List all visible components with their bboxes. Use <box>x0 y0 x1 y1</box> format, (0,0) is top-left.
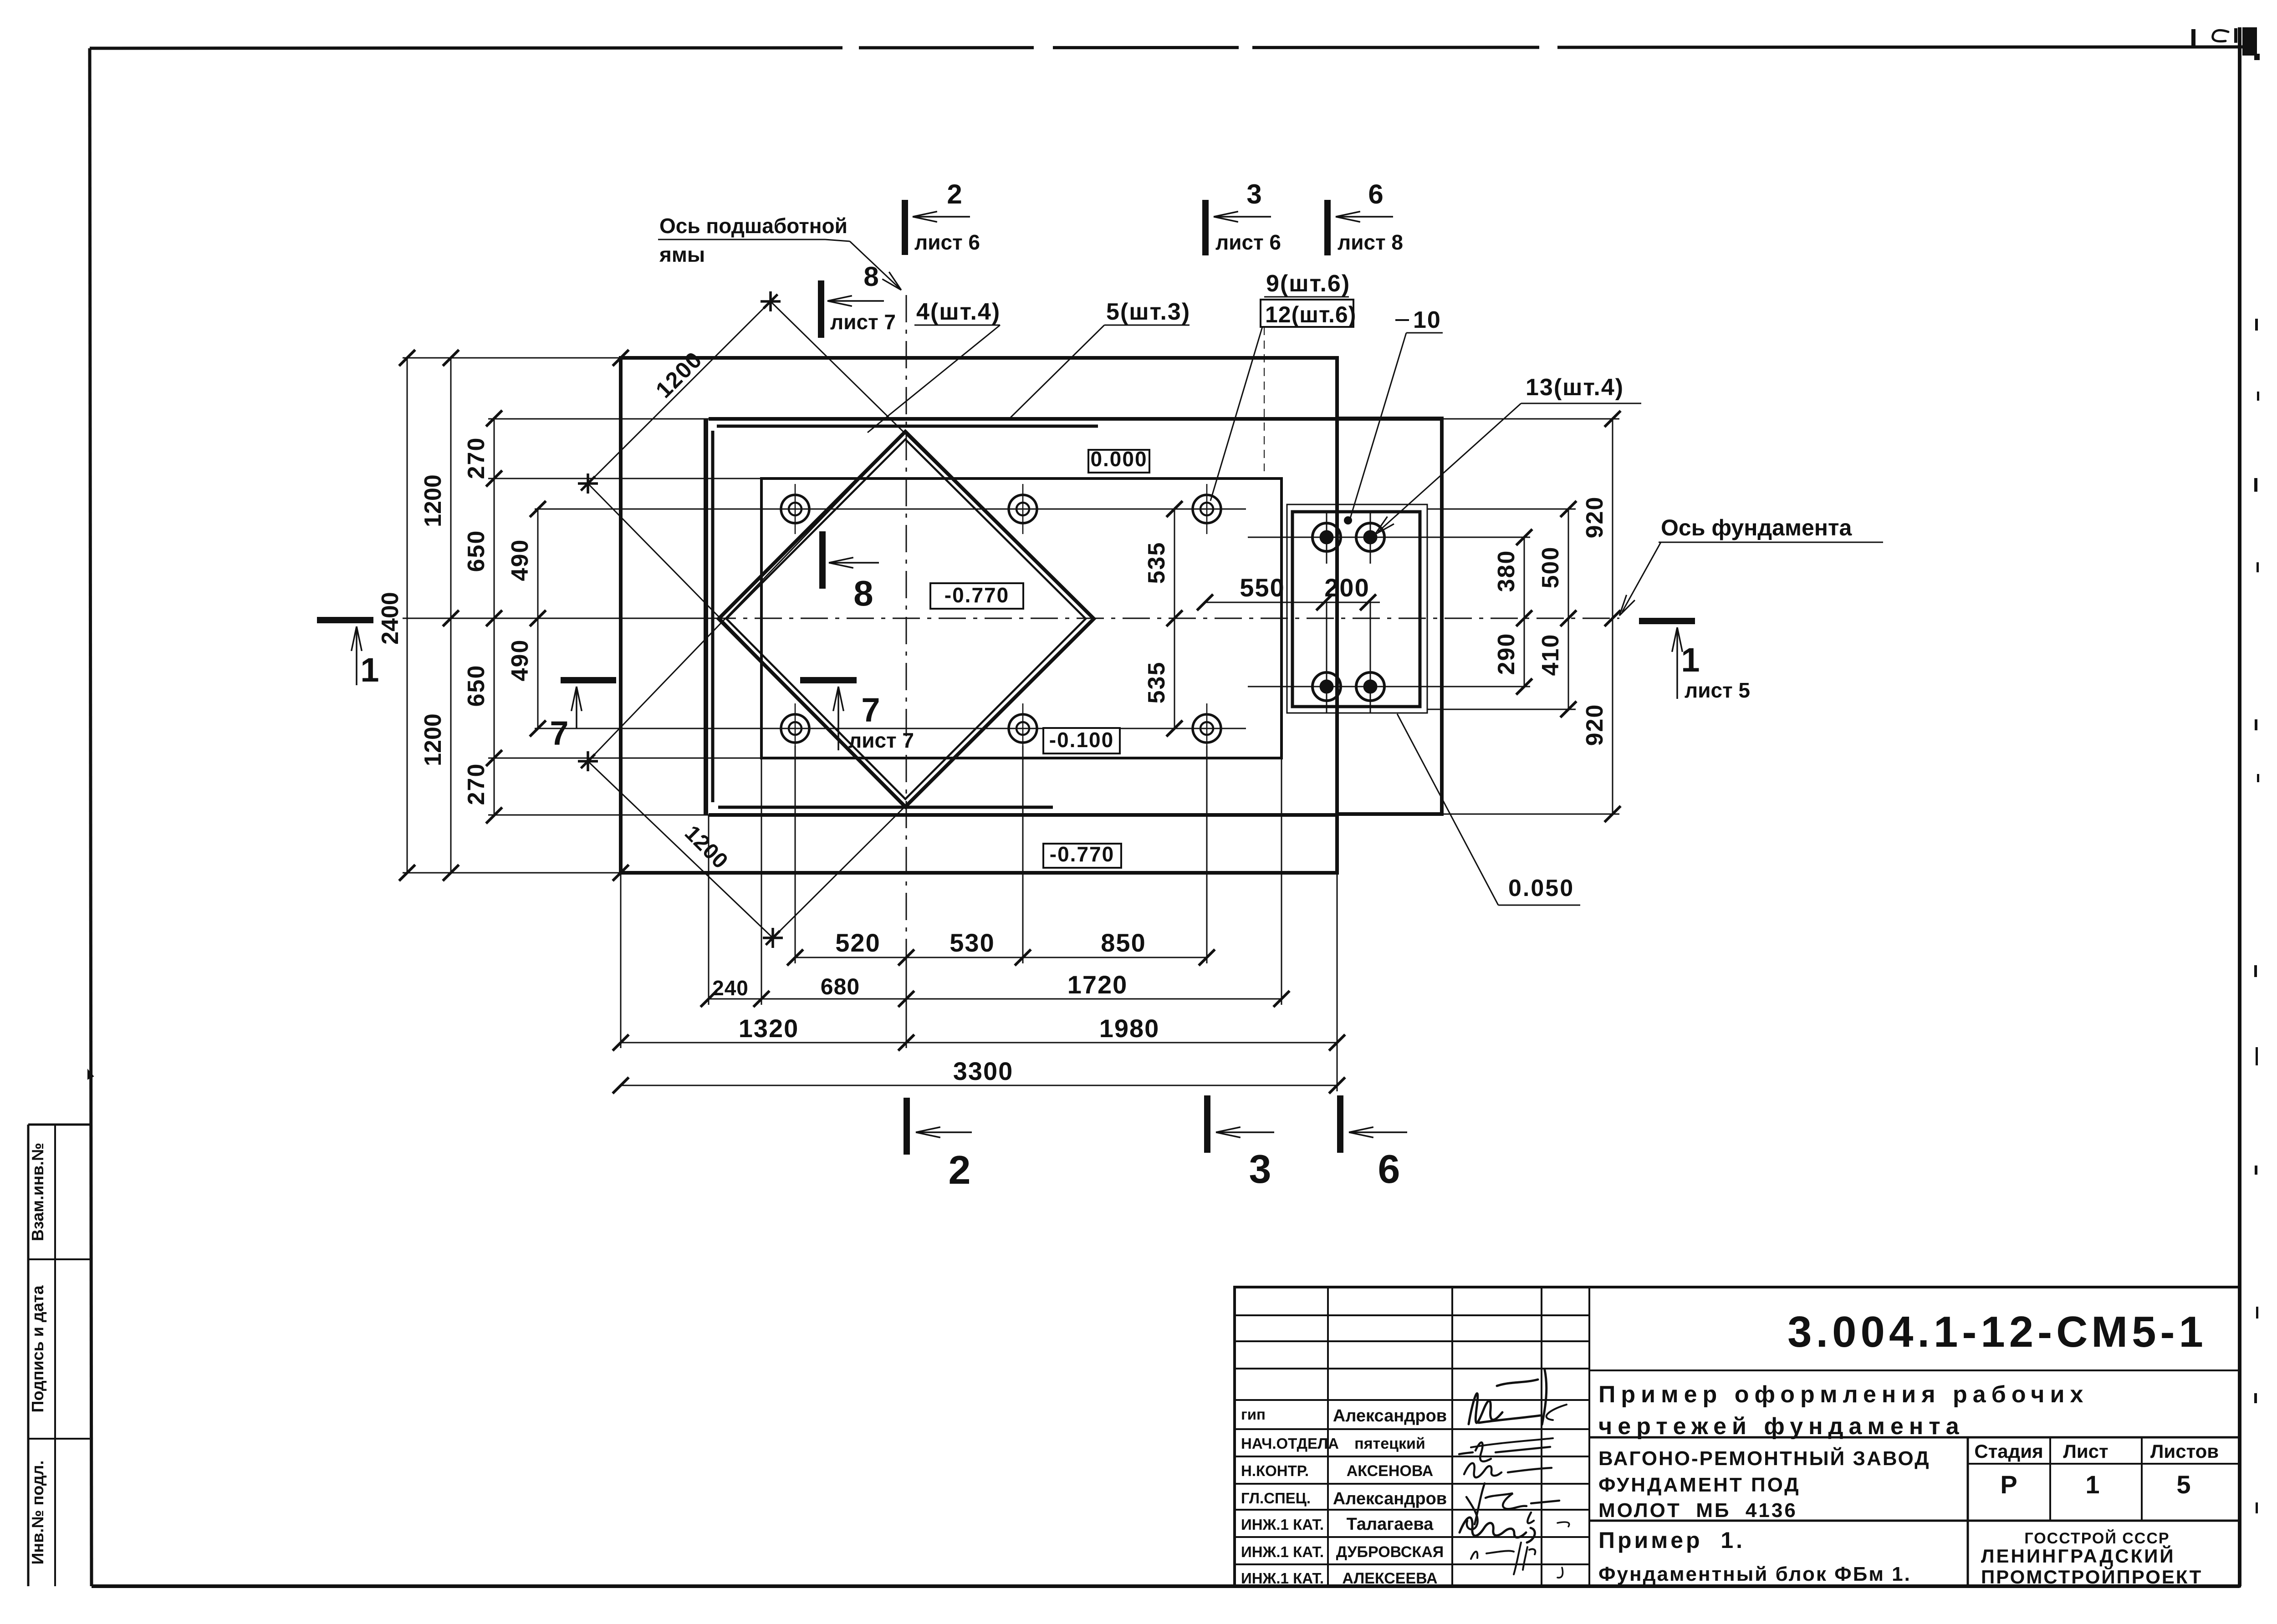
svg-text:-0.770: -0.770 <box>944 583 1009 607</box>
sheet frame top border <box>90 47 2245 48</box>
anchor plate bolt column lines <box>1326 602 1327 701</box>
svg-text:лист 6: лист 6 <box>1215 230 1281 254</box>
svg-text:ЛЕНИНГРАДСКИЙ: ЛЕНИНГРАДСКИЙ <box>1981 1545 2175 1567</box>
svg-text:лист 7: лист 7 <box>848 728 914 752</box>
svg-text:Александров: Александров <box>1333 1406 1447 1425</box>
svg-text:лист 6: лист 6 <box>914 230 980 254</box>
svg-text:1: 1 <box>1681 641 1700 679</box>
svg-text:НАЧ.ОТДЕЛА: НАЧ.ОТДЕЛА <box>1241 1435 1339 1452</box>
svg-text:1980: 1980 <box>1099 1014 1160 1043</box>
svg-text:ИНЖ.1 КАТ.: ИНЖ.1 КАТ. <box>1241 1516 1324 1533</box>
dimension line 920/920 <box>1612 419 1613 814</box>
svg-text:Н.КОНТР.: Н.КОНТР. <box>1241 1462 1309 1479</box>
svg-text:чертежей фундамента: чертежей фундамента <box>1598 1413 1965 1440</box>
section marker 7 left <box>561 677 616 683</box>
section marker 2 bottom <box>904 1098 910 1155</box>
page number stamp artifacts top right <box>2191 29 2195 48</box>
anchor plate inner outline <box>1292 512 1420 707</box>
pit left inner wall line <box>711 431 715 802</box>
section marker 3 top <box>1202 200 1209 255</box>
plate bolt row extension lines <box>1248 537 1530 538</box>
svg-text:2400: 2400 <box>377 592 403 645</box>
svg-text:270: 270 <box>463 437 490 479</box>
svg-text:ВАГОНО-РЕМОНТНЫЙ ЗАВОД: ВАГОНО-РЕМОНТНЫЙ ЗАВОД <box>1598 1446 1930 1470</box>
svg-text:ГОССТРОЙ СССР: ГОССТРОЙ СССР <box>2024 1529 2170 1547</box>
svg-text:ИНЖ.1 КАТ.: ИНЖ.1 КАТ. <box>1241 1570 1324 1587</box>
svg-text:290: 290 <box>1493 633 1520 675</box>
dimension line 240/680/1720 <box>709 998 1281 1000</box>
label 12 (pcs.6) boxed <box>1261 300 1353 327</box>
svg-text:520: 520 <box>835 928 880 957</box>
signature scribbles <box>1469 1370 1547 1425</box>
svg-text:лист 8: лист 8 <box>1338 230 1403 254</box>
svg-text:650: 650 <box>463 530 490 572</box>
dimension line 550/200 <box>1205 602 1380 603</box>
dimension line 2400 <box>407 358 408 873</box>
left stamp boxes <box>27 1125 30 1586</box>
dimension line 500/410 <box>1568 509 1569 709</box>
svg-text:5(шт.3): 5(шт.3) <box>1106 299 1190 325</box>
elevation box -0.770 bottom <box>1043 844 1121 868</box>
svg-text:490: 490 <box>507 639 533 682</box>
svg-text:240: 240 <box>712 976 749 1000</box>
dimension line 3300 <box>621 1085 1337 1086</box>
svg-text:ФУНДАМЕНТ ПОД: ФУНДАМЕНТ ПОД <box>1598 1474 1801 1496</box>
section marker 8 inner <box>819 531 826 589</box>
svg-text:Пример 1.: Пример 1. <box>1598 1527 1745 1553</box>
svg-text:МОЛОТ МБ 4136: МОЛОТ МБ 4136 <box>1598 1499 1797 1522</box>
svg-text:Стадия: Стадия <box>1974 1441 2043 1462</box>
svg-text:920: 920 <box>1582 704 1608 746</box>
title block vertical dividers left table <box>1327 1287 1329 1586</box>
vertical pit axis <box>906 295 907 949</box>
svg-text:-0.770: -0.770 <box>1050 842 1114 866</box>
dimension extension bottom edge <box>403 872 621 874</box>
section marker 3 bottom <box>1204 1095 1210 1153</box>
section marker 6 bottom <box>1337 1095 1343 1153</box>
svg-text:3: 3 <box>1246 179 1261 209</box>
anchor plate outer outline <box>1287 504 1427 713</box>
svg-text:550: 550 <box>1240 573 1285 602</box>
recess bottom extension line <box>488 758 761 759</box>
pit bottom diamond outer <box>719 432 1094 807</box>
svg-text:ямы: ямы <box>659 243 705 266</box>
excavation slope line bottom to right vertex <box>773 619 1094 938</box>
pit bottom diamond inner <box>726 439 1086 799</box>
svg-text:3: 3 <box>1249 1146 1271 1191</box>
dimension line 1200/1200 <box>450 358 452 873</box>
svg-text:7: 7 <box>550 714 568 752</box>
bolt row top line <box>535 509 1246 510</box>
svg-text:Александров: Александров <box>1333 1489 1447 1508</box>
pit left edge <box>704 419 708 815</box>
svg-text:410: 410 <box>1537 634 1564 676</box>
section marker 1 left <box>317 617 373 623</box>
svg-text:9(шт.6): 9(шт.6) <box>1266 270 1350 297</box>
excavation slope line top-left to right vertex <box>771 301 1094 619</box>
bolt row bottom line <box>535 728 1246 729</box>
svg-text:3300: 3300 <box>953 1057 1014 1085</box>
svg-text:3.004.1-12-СМ5-1: 3.004.1-12-СМ5-1 <box>1787 1308 2207 1356</box>
svg-text:530: 530 <box>950 928 995 957</box>
svg-text:лист 5: лист 5 <box>1685 678 1750 702</box>
svg-text:1200: 1200 <box>420 474 446 527</box>
dimension line 520/530/850 <box>795 957 1207 958</box>
sheet frame right border <box>2238 27 2241 1586</box>
elevation box 0.000 <box>1088 450 1149 473</box>
svg-text:490: 490 <box>507 539 533 581</box>
svg-text:АКСЕНОВА: АКСЕНОВА <box>1347 1462 1434 1480</box>
svg-text:Талагаева: Талагаева <box>1347 1515 1434 1534</box>
svg-text:Пример оформления рабочих: Пример оформления рабочих <box>1598 1381 2088 1408</box>
svg-text:Инв.№ подл.: Инв.№ подл. <box>28 1461 47 1565</box>
svg-text:Листов: Листов <box>2150 1441 2219 1462</box>
title block right area lines <box>1589 1369 2240 1371</box>
svg-text:850: 850 <box>1101 928 1146 957</box>
title block outer frame <box>1235 1287 2240 1586</box>
svg-text:гип: гип <box>1241 1406 1266 1423</box>
foundation block right extension <box>1337 418 1442 814</box>
elevation box -0.100 <box>1043 728 1120 753</box>
recess top extension line <box>488 478 761 479</box>
svg-text:650: 650 <box>463 665 490 707</box>
diagonal dimension 1200 lower <box>588 761 773 938</box>
svg-text:500: 500 <box>1537 546 1564 589</box>
svg-text:Взам.инв.№: Взам.инв.№ <box>28 1143 47 1241</box>
plate top/bottom extension lines <box>1427 509 1576 510</box>
excavation slope line lower-left to top vertex <box>588 432 905 761</box>
svg-text:Ось фундамента: Ось фундамента <box>1661 515 1852 540</box>
extension lines right of block <box>1442 418 1619 420</box>
svg-text:АЛЕКСЕЕВА: АЛЕКСЕЕВА <box>1342 1570 1437 1587</box>
svg-text:6: 6 <box>1378 1146 1400 1191</box>
fold mark on left border <box>88 1070 93 1079</box>
svg-text:ПРОМСТРОЙПРОЕКТ: ПРОМСТРОЙПРОЕКТ <box>1981 1566 2202 1588</box>
svg-text:10: 10 <box>1413 307 1441 333</box>
svg-text:2: 2 <box>947 179 962 209</box>
diagonal dimension 1200 upper <box>588 301 771 484</box>
svg-text:1200: 1200 <box>420 713 446 766</box>
svg-text:Лист: Лист <box>2063 1441 2108 1462</box>
svg-text:Ось подшаботной: Ось подшаботной <box>659 214 847 238</box>
svg-text:-0.100: -0.100 <box>1049 728 1114 752</box>
sheet frame left border <box>90 48 92 1586</box>
dimension line 270/650/650/270 <box>494 418 495 815</box>
svg-text:Фундаментный блок ФБм 1.: Фундаментный блок ФБм 1. <box>1598 1563 1911 1585</box>
anvil recess rectangle <box>761 479 1281 758</box>
svg-text:пятецкий: пятецкий <box>1354 1435 1425 1452</box>
section marker 2 top <box>902 200 908 255</box>
svg-text:2: 2 <box>949 1147 971 1192</box>
plate anchor bolts 13 <box>1300 511 1353 564</box>
svg-text:ГЛ.СПЕЦ.: ГЛ.СПЕЦ. <box>1241 1490 1311 1507</box>
svg-text:1720: 1720 <box>1067 970 1128 999</box>
right margin specks <box>2255 319 2258 331</box>
dimension extension top edge <box>403 357 621 359</box>
svg-text:1320: 1320 <box>739 1014 799 1043</box>
section marker 6 top <box>1324 200 1331 255</box>
svg-text:13(шт.4): 13(шт.4) <box>1526 374 1624 401</box>
title block horizontal lines left table <box>1235 1314 1589 1316</box>
pit top edge <box>488 418 709 420</box>
horizontal foundation axis <box>403 618 709 619</box>
svg-text:535: 535 <box>1144 662 1170 704</box>
elevation box -0.770 center <box>930 583 1023 609</box>
svg-text:5: 5 <box>2176 1470 2190 1499</box>
svg-text:7: 7 <box>861 691 880 729</box>
dimension line 535/535 <box>1174 509 1175 728</box>
section marker 7 mid <box>800 677 857 683</box>
svg-text:270: 270 <box>463 763 490 805</box>
svg-text:6: 6 <box>1368 179 1383 209</box>
label 10 <box>1395 319 1409 321</box>
lower extension lines <box>620 873 622 1048</box>
pit bottom inner wall line <box>718 806 1053 809</box>
svg-text:0.050: 0.050 <box>1508 875 1574 901</box>
dimension line 490/490 <box>537 509 539 728</box>
svg-text:680: 680 <box>821 974 860 999</box>
svg-text:ДУБРОВСКАЯ: ДУБРОВСКАЯ <box>1336 1543 1444 1561</box>
svg-text:200: 200 <box>1324 573 1369 602</box>
svg-text:535: 535 <box>1144 542 1170 584</box>
svg-text:ИНЖ.1 КАТ.: ИНЖ.1 КАТ. <box>1241 1543 1324 1560</box>
svg-text:12(шт.6): 12(шт.6) <box>1265 302 1356 327</box>
section marker 8 top <box>818 280 824 338</box>
svg-text:0.000: 0.000 <box>1090 447 1147 471</box>
svg-text:380: 380 <box>1493 550 1520 592</box>
excavation slope line upper-left to bottom vertex <box>588 484 905 807</box>
anchor bolts group 4 <box>770 484 820 534</box>
svg-text:8: 8 <box>853 573 873 613</box>
sheet frame bottom border <box>92 1584 2240 1588</box>
anchor bolts group 9/12 <box>998 484 1048 534</box>
svg-text:4(шт.4): 4(шт.4) <box>916 299 1001 325</box>
pit top inner wall line <box>717 425 1098 428</box>
svg-text:лист 7: лист 7 <box>830 310 896 334</box>
foundation block outline <box>621 358 1337 873</box>
dimension line 1320/1980 <box>621 1042 1337 1044</box>
section marker 1 right <box>1639 618 1695 624</box>
svg-text:Подпись и дата: Подпись и дата <box>28 1285 47 1413</box>
svg-text:920: 920 <box>1582 496 1608 539</box>
dimension line 380/290 <box>1524 537 1525 687</box>
svg-text:1: 1 <box>2085 1470 2099 1499</box>
svg-text:1: 1 <box>360 651 379 689</box>
pit bottom edge <box>488 815 709 816</box>
svg-text:Р: Р <box>2000 1470 2017 1499</box>
